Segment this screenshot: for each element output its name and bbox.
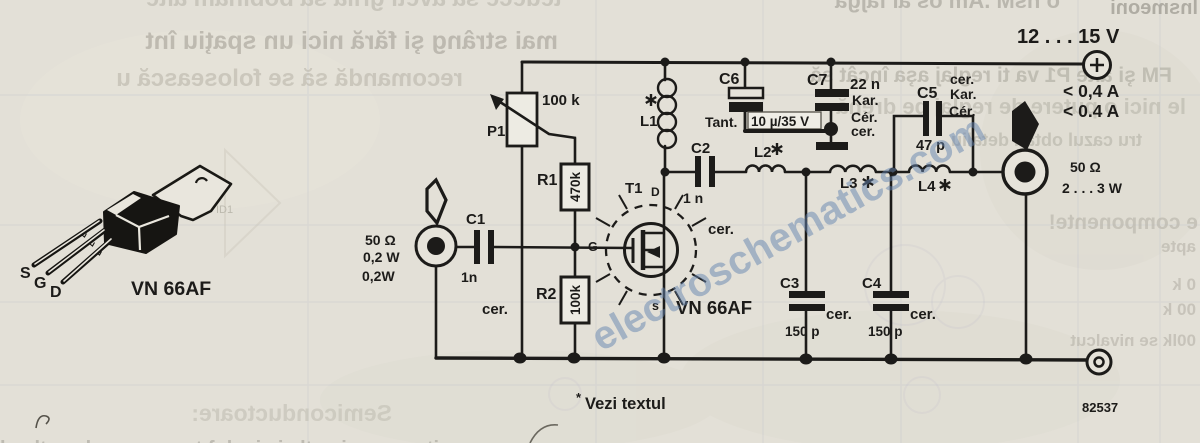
junction L1 top [661,58,670,67]
svg-text:Semiconductoare:: Semiconductoare: [191,400,392,426]
input arrow symbol [427,180,446,223]
junction rail source [658,353,671,364]
wire L4 to output node [950,171,1003,174]
inductor L2 [746,166,785,172]
svg-text:C3: C3 [780,275,799,292]
junction C6-C7 bottom [824,122,838,136]
svg-text:50 Ω: 50 Ω [365,232,396,248]
wire C7 leads [830,62,833,89]
wire L1 top lead [664,62,667,80]
svg-text:R2: R2 [536,286,557,303]
capacitor C7 [807,72,880,139]
junction L3-L4 C5 C4 [889,168,898,177]
svg-text:Kar.: Kar. [852,92,878,108]
svg-text:50 Ω: 50 Ω [1070,159,1101,175]
wire drain-source vertical of T1 [663,172,666,358]
svg-text:ln alte scheme se pot folosi s: ln alte scheme se pot folosi si alte pie… [0,438,439,443]
wire input to C1 [456,246,474,249]
svg-text:C6: C6 [719,71,740,88]
svg-text:Vezi textul: Vezi textul [585,395,666,413]
svg-text:cer.: cer. [482,301,508,318]
svg-text:82537: 82537 [1082,400,1118,415]
svg-text:e componente!: e componente! [1049,211,1198,234]
svg-text:100 k: 100 k [542,92,580,109]
svg-text:470k: 470k [568,171,583,202]
wire top supply rail [522,62,1084,64]
capacitor C5 [916,71,976,154]
junction C6 top [741,58,750,67]
svg-text:cer.: cer. [910,306,936,323]
svg-text:T1: T1 [625,180,643,197]
wire R2 leads [574,247,577,278]
junction drain node [661,168,670,177]
package tab [153,166,231,220]
potentiometer P1 [487,92,580,146]
svg-text:Kar.: Kar. [950,86,976,102]
svg-text:le nici o putere de reglaj pe: le nici o putere de reglaj pe drenă [836,94,1186,119]
wire C5 left riser [894,116,923,172]
resistor R2 100k [536,277,589,323]
capacitor C6 tantalum [705,71,831,131]
capacitor C3 [780,275,852,339]
inductor L3 [830,166,876,172]
svg-text:C7: C7 [807,72,828,89]
faint op-amp triangle bleed [225,150,280,256]
note Vezi textul [576,390,666,413]
wire C6 to C7 bottom thick link [745,129,831,133]
wire L3 to L4 [876,171,909,174]
capacitor C2 [683,140,715,206]
svg-text:L1: L1 [640,113,658,130]
svg-text:D: D [651,185,660,199]
svg-text:recomandă să se folosească: recomandă să se folosească u [116,65,463,92]
resistor R1 470k [537,164,589,210]
svg-text:1 n: 1 n [683,190,703,206]
svg-text:2 . . . 3 W: 2 . . . 3 W [1062,180,1123,196]
svg-text:10 µ/35 V: 10 µ/35 V [751,114,809,129]
svg-text:0 k: 0 k [1172,275,1196,294]
svg-text:cer.: cer. [950,71,974,87]
svg-text:150 p: 150 p [785,324,820,339]
wire R1 top lead [574,138,577,164]
wire C1 to gate [494,247,633,248]
wire C2 to L2 [715,171,746,174]
inductor L1 [658,79,676,148]
svg-text:G: G [34,275,46,292]
wire node to C2 [665,171,695,174]
package body [104,192,179,253]
wire C3 risers [805,172,808,291]
svg-text:cer.: cer. [708,221,734,238]
wire output connector down [1025,194,1028,358]
svg-text:C5: C5 [917,85,938,102]
capacitor C4 [862,275,936,339]
input labels 50Ω 0,2W [362,232,400,284]
svg-text:tedece sa aveti grila sa bobin: tedece sa aveti grila sa bobinam alte [146,0,562,12]
output labels 50Ω 2...3W [1062,159,1123,196]
svg-text:C1: C1 [466,211,485,228]
output connector [1003,150,1047,194]
svg-text:22 n: 22 n [850,76,880,93]
svg-text:C4: C4 [862,275,882,292]
junction rail output [1020,354,1033,365]
svg-text:100k: 100k [568,284,583,315]
svg-text:< 0.4 A: < 0.4 A [1063,101,1120,121]
ground terminal [1087,350,1111,374]
svg-text:o nsM .Am os al fajga: o nsM .Am os al fajga [834,0,1060,13]
transistor T1 VN66AF mosfet [596,195,706,305]
wire P1 bottom lead [521,146,524,358]
svg-text:VN 66AF: VN 66AF [131,278,211,300]
asterisk L1 [646,94,656,106]
wire bottom ground rail [436,358,1087,360]
svg-text:0,2W: 0,2W [362,268,395,284]
wire C6 leads [744,62,747,88]
input connector J1 [416,226,456,266]
package leads [34,221,112,282]
junction rail P1 [514,353,527,364]
svg-text:cer.: cer. [851,123,875,139]
supply terminal + [1084,52,1111,79]
pen squiggle bottom left [36,416,49,428]
package pin labels S G D [20,265,62,301]
junction rail R2 [568,353,581,364]
wire C5 right riser [942,116,973,172]
inductor L4 [909,166,950,172]
svg-text:apte: apte [1161,237,1196,256]
junction rail C3 [800,354,813,365]
supply labels [1017,26,1120,121]
wire input connector down [435,266,438,358]
faint stamp circles bleed [549,245,984,413]
svg-text:D: D [50,284,62,301]
junction gate node [571,243,580,252]
svg-text:lnsmeoni: lnsmeoni [1110,0,1198,19]
svg-text:mai strâng şi fără nici un spa: mai strâng şi fără nici un spaţiu înt [145,27,558,55]
svg-text:R1: R1 [537,172,558,189]
junction rail C4 [885,354,898,365]
svg-text:Tant.: Tant. [705,114,737,130]
svg-text:0,2 W: 0,2 W [363,249,400,265]
capacitor C1 [461,211,508,318]
svg-text:12 . . . 15 V: 12 . . . 15 V [1017,26,1120,48]
svg-text:C2: C2 [691,140,710,157]
svg-text:P1: P1 [487,123,505,140]
wire C4 risers [890,172,893,291]
wire L2 to L3 [785,171,830,174]
svg-text:150 p: 150 p [868,324,903,339]
svg-text:1n: 1n [461,269,477,285]
svg-text:00 k: 00 k [1162,300,1196,319]
output arrow symbol [1012,101,1039,150]
svg-text:G: G [588,240,598,254]
junction C5-L4 out [969,168,978,177]
junction C7 top [827,58,836,67]
transistor package VN66AF drawing [20,166,231,301]
svg-text:L2: L2 [754,144,772,161]
ground bar below C7 [816,142,848,150]
svg-text:ID1: ID1 [216,204,233,216]
svg-text:S: S [20,265,31,282]
svg-text:00lk se nivalcut: 00lk se nivalcut [1070,331,1196,350]
wire R1 bottom lead to gate node [574,210,577,247]
wire P1 top lead [521,62,524,93]
junction L2-L3 [802,168,811,177]
svg-text:cer.: cer. [826,306,852,323]
wire L1 bottom lead [664,146,667,172]
svg-text:< 0,4 A: < 0,4 A [1063,81,1120,101]
